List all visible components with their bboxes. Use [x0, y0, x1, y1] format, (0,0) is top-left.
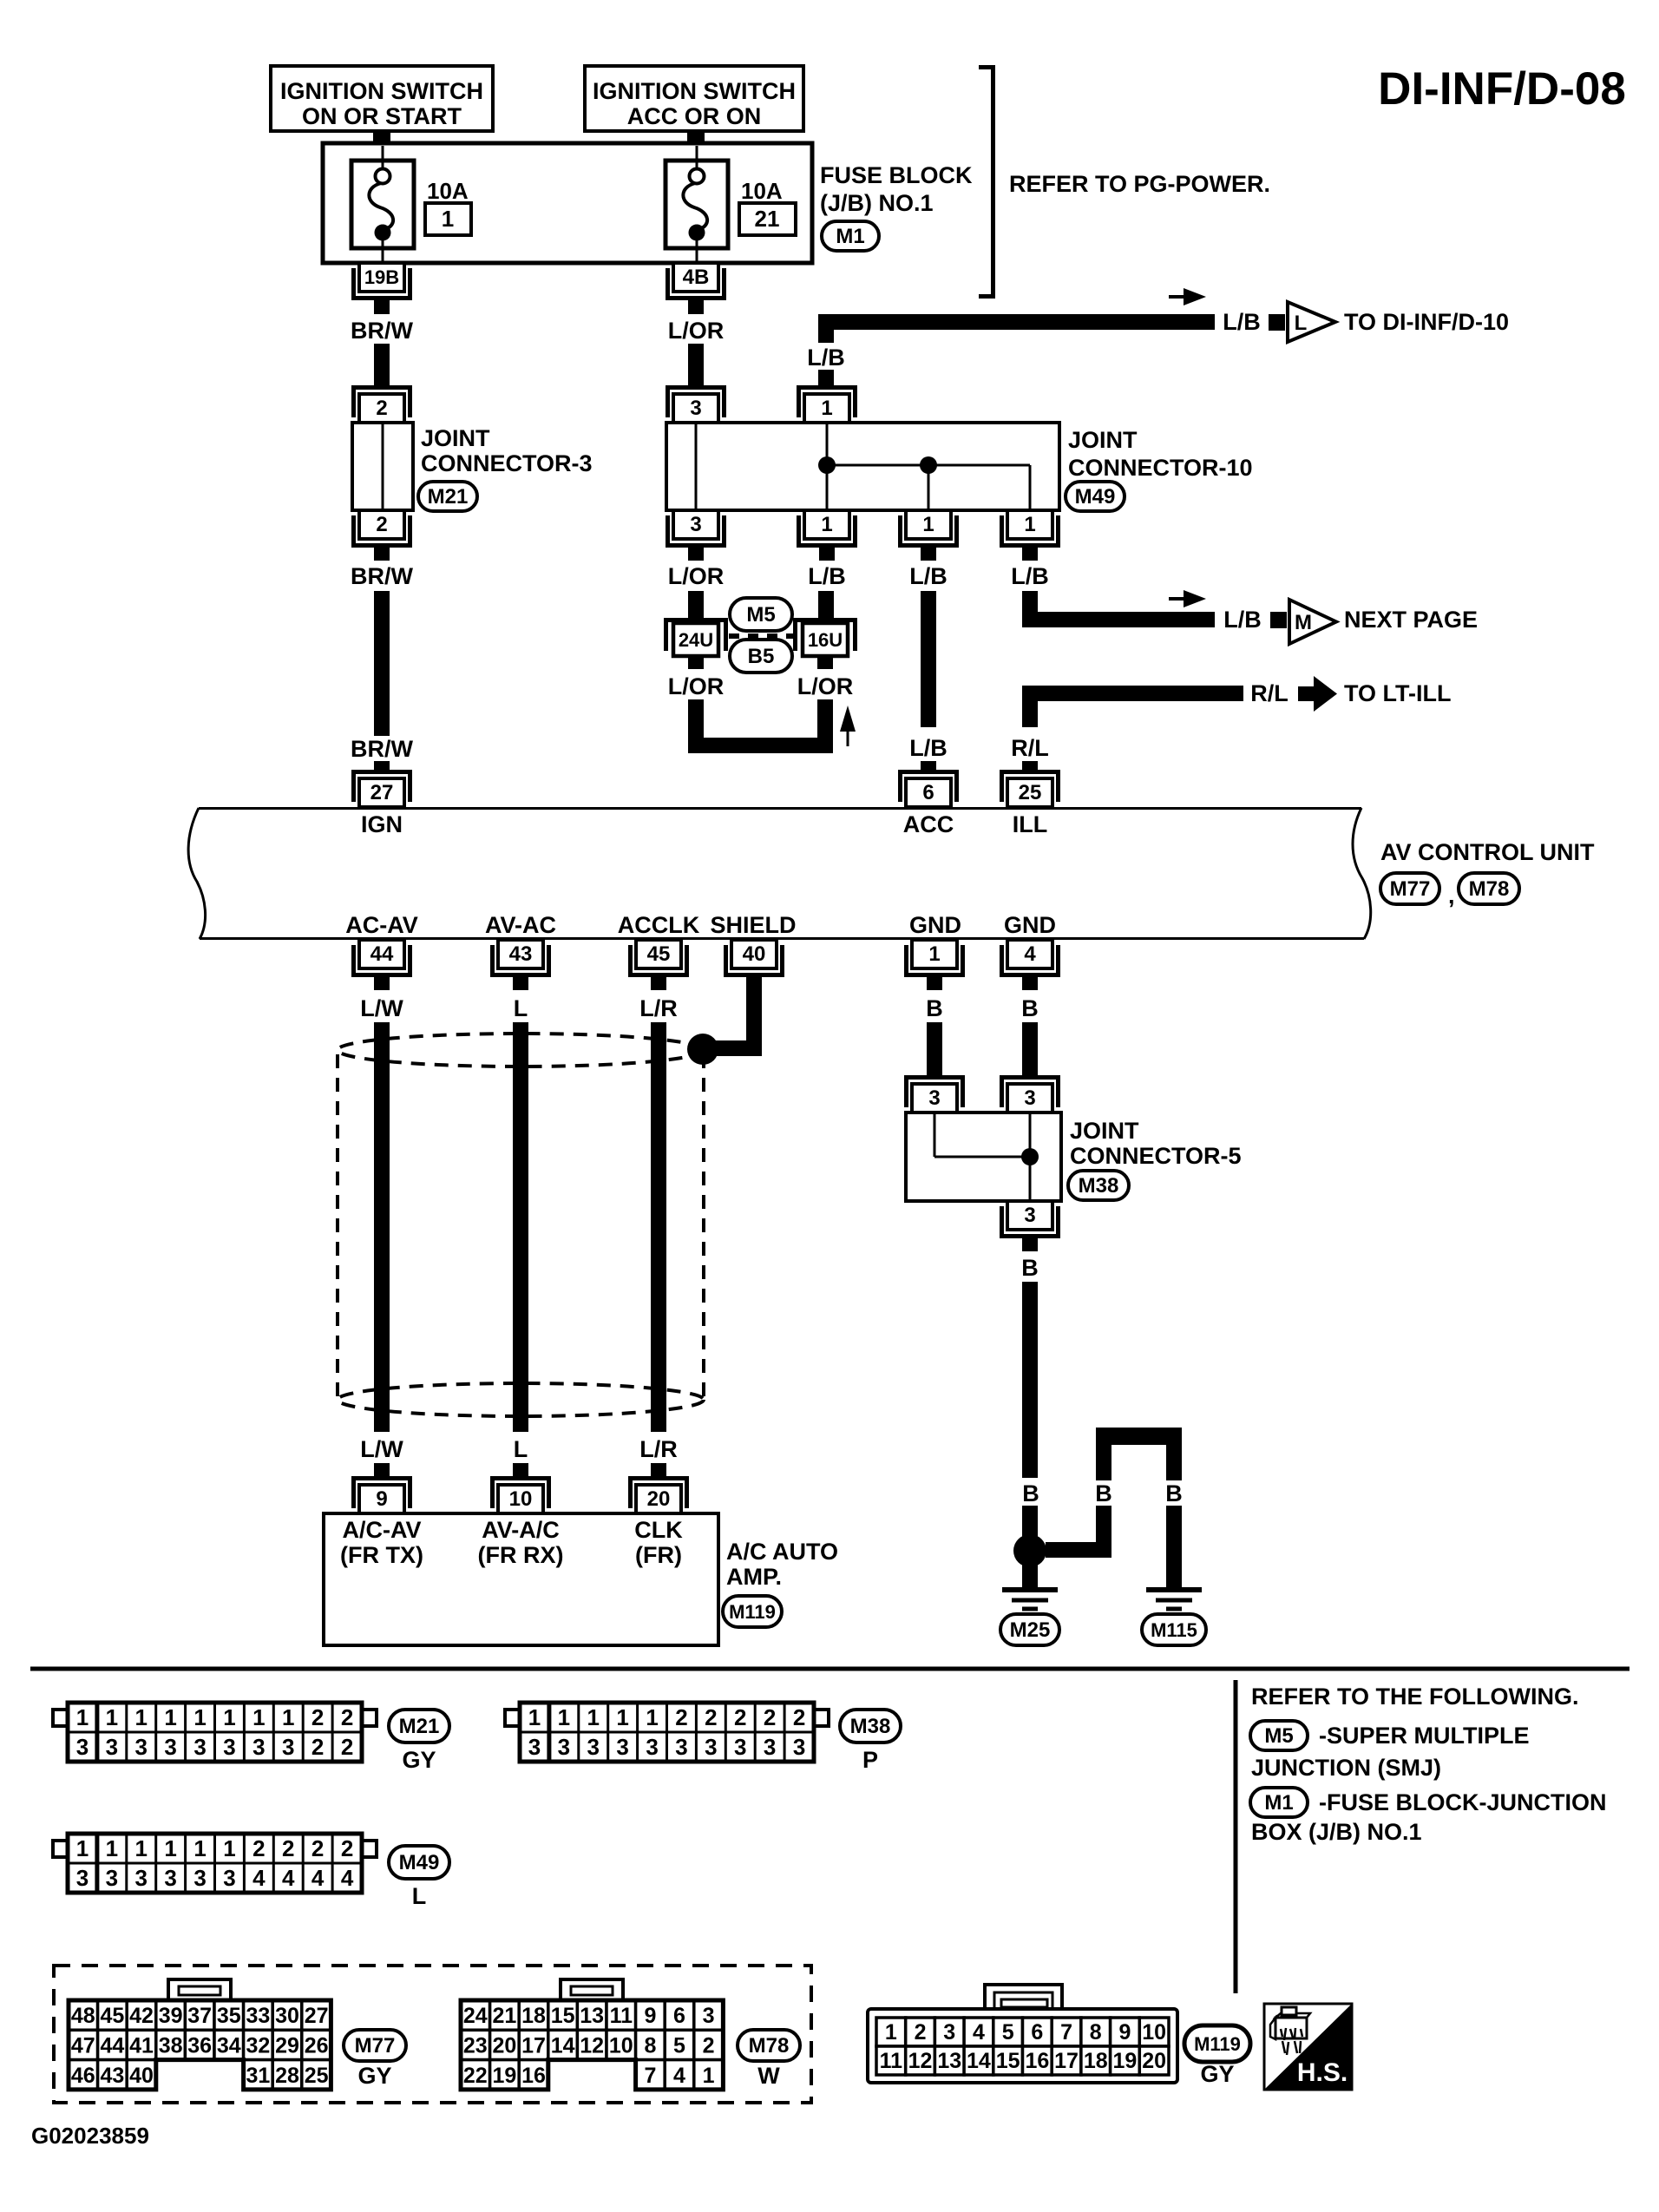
- connector pin 1 (AV unit): [907, 940, 963, 975]
- svg-text:10: 10: [1142, 2020, 1166, 2045]
- svg-text:B: B: [1022, 1480, 1039, 1506]
- off-page triangle L: [1288, 302, 1335, 342]
- wire L/R: [651, 1022, 666, 1432]
- svg-text:42: 42: [129, 2004, 154, 2028]
- off-page connector square: [1269, 314, 1285, 331]
- connector pin 43 (AV unit): [493, 940, 549, 975]
- connector ref M77 oval: [344, 2030, 406, 2061]
- connector pin 3 (joint connector-5 top): [907, 1078, 963, 1113]
- wire L/B from joint connector-10 to DI-INF/D-10: [818, 314, 1215, 330]
- wire stub above pin 6: [921, 761, 936, 772]
- joint connector-10 body M49: [666, 423, 1059, 510]
- svg-text:1: 1: [646, 1704, 658, 1730]
- svg-text:L: L: [514, 1436, 528, 1462]
- dashed box around M77/M78: [54, 1966, 811, 2103]
- wire stub above JC-10 pin 1: [818, 370, 834, 388]
- svg-text:L/B: L/B: [808, 563, 846, 589]
- fuse block (J/B) no.1 box M1: [323, 143, 812, 263]
- wire stub below 4B: [688, 298, 704, 314]
- SMJ dashed link M5/B5: [729, 633, 798, 639]
- wire stubs below AV unit: [374, 975, 390, 990]
- connector ref M78 oval: [1459, 873, 1519, 904]
- svg-text:18: 18: [521, 2004, 546, 2028]
- svg-text:1: 1: [135, 1835, 148, 1861]
- up arrow: [840, 706, 856, 746]
- connector table M78: [461, 1979, 723, 2090]
- svg-text:3: 3: [734, 1734, 746, 1760]
- connector pin 9 (A/C amp): [354, 1479, 410, 1514]
- svg-text:P: P: [862, 1747, 878, 1773]
- svg-text:4: 4: [311, 1865, 325, 1891]
- svg-text:4: 4: [1024, 942, 1036, 966]
- svg-text:IGNITION SWITCH: IGNITION SWITCH: [593, 78, 796, 104]
- svg-text:24: 24: [463, 2004, 488, 2028]
- svg-text:(FR TX): (FR TX): [340, 1542, 423, 1568]
- svg-text:AC-AV: AC-AV: [345, 912, 418, 938]
- svg-text:2: 2: [705, 1704, 717, 1730]
- svg-text:22: 22: [463, 2064, 488, 2088]
- fuse 1 rating 10A and number 1: [425, 178, 471, 235]
- connector pin 1 (joint connector-10 bottom): [799, 510, 856, 546]
- svg-text:G02023859: G02023859: [31, 2123, 149, 2149]
- wire: ignition ACC to fuse block: [687, 131, 705, 145]
- svg-text:30: 30: [275, 2004, 299, 2028]
- svg-text:35: 35: [217, 2004, 241, 2028]
- svg-text:5: 5: [673, 2033, 685, 2058]
- svg-text:L/B: L/B: [807, 345, 845, 371]
- svg-text:12: 12: [908, 2049, 933, 2073]
- svg-text:36: 36: [187, 2033, 212, 2058]
- svg-text:20: 20: [647, 1487, 671, 1511]
- svg-text:2: 2: [341, 1704, 353, 1730]
- connector pin 1 (joint connector-10 top): [799, 388, 856, 423]
- label FUSE BLOCK (J/B) NO.1: [820, 162, 973, 216]
- connector ref M49 oval: [1066, 482, 1125, 511]
- junction dot in JC-10: [818, 456, 836, 474]
- svg-text:19: 19: [492, 2064, 516, 2088]
- svg-text:9: 9: [1118, 2020, 1131, 2045]
- svg-text:20: 20: [492, 2033, 516, 2058]
- svg-text:3: 3: [793, 1734, 805, 1760]
- svg-text:3: 3: [616, 1734, 628, 1760]
- svg-text:25: 25: [305, 2064, 329, 2088]
- svg-text:GY: GY: [1200, 2061, 1234, 2087]
- svg-text:ILL: ILL: [1013, 811, 1048, 837]
- svg-text:(FR RX): (FR RX): [478, 1542, 564, 1568]
- svg-text:GY: GY: [402, 1747, 436, 1773]
- connector ref M1 oval: [1250, 1788, 1308, 1817]
- svg-text:3: 3: [587, 1734, 600, 1760]
- wire to ground M115: [1166, 1506, 1182, 1589]
- ground ref M25 oval: [1000, 1614, 1059, 1645]
- svg-text:17: 17: [1054, 2049, 1079, 2073]
- svg-text:M21: M21: [428, 485, 469, 509]
- svg-text:15: 15: [551, 2004, 575, 2028]
- svg-text:16: 16: [521, 2064, 546, 2088]
- connector ref M1 oval: [822, 221, 879, 251]
- svg-text:GY: GY: [357, 2063, 391, 2089]
- svg-text:1: 1: [164, 1704, 176, 1730]
- svg-text:M5: M5: [1264, 1724, 1293, 1748]
- SMJ terminal 16U (SMJ B5 side): [796, 620, 856, 657]
- svg-text:37: 37: [187, 2004, 212, 2028]
- connector ref M78 oval: [738, 2030, 800, 2061]
- wire BR/W long to AV unit: [374, 591, 390, 736]
- svg-text:A/C AUTO: A/C AUTO: [726, 1539, 838, 1565]
- svg-text:1: 1: [1024, 513, 1035, 536]
- flow arrow right: [1169, 288, 1206, 305]
- svg-text:B5: B5: [748, 645, 775, 668]
- svg-text:2: 2: [341, 1734, 353, 1760]
- H.S. logo: [1264, 2004, 1352, 2090]
- svg-text:L: L: [1295, 312, 1308, 335]
- fuse fuse 21 10A: [666, 146, 728, 261]
- connector table M77: [69, 1979, 331, 2090]
- svg-text:18: 18: [1084, 2049, 1108, 2073]
- svg-text:R/L: R/L: [1011, 735, 1049, 761]
- svg-text:,: ,: [1448, 883, 1455, 909]
- wire stub above pin 27: [374, 761, 390, 772]
- svg-text:1: 1: [193, 1704, 206, 1730]
- svg-text:3: 3: [690, 397, 701, 420]
- connector ref B5 oval: [730, 640, 792, 673]
- svg-text:38: 38: [159, 2033, 183, 2058]
- connector ref M38 oval: [1068, 1171, 1129, 1200]
- svg-text:26: 26: [305, 2033, 329, 2058]
- svg-text:2: 2: [341, 1835, 353, 1861]
- svg-text:M21: M21: [399, 1715, 440, 1738]
- svg-text:JUNCTION (SMJ): JUNCTION (SMJ): [1251, 1755, 1441, 1781]
- connector ref M21 oval: [418, 482, 477, 511]
- connector table M49: [53, 1834, 377, 1893]
- connector pin 40 (AV unit): [726, 940, 783, 975]
- AV control unit box M77/M78: [188, 808, 1371, 939]
- svg-text:11: 11: [880, 2049, 903, 2073]
- svg-text:43: 43: [509, 942, 533, 966]
- svg-text:L/B: L/B: [1223, 607, 1262, 633]
- off-page connector square: [1270, 612, 1287, 628]
- svg-text:1: 1: [587, 1704, 600, 1730]
- svg-text:M119: M119: [729, 1601, 776, 1623]
- svg-text:1: 1: [193, 1835, 206, 1861]
- svg-text:1: 1: [76, 1835, 89, 1861]
- svg-text:3: 3: [1024, 1086, 1035, 1110]
- svg-text:3: 3: [928, 1086, 940, 1110]
- svg-text:M: M: [1295, 611, 1312, 634]
- svg-text:3: 3: [106, 1865, 118, 1891]
- connector table M38: [505, 1703, 829, 1762]
- wire U-loop 24U to 16U: [688, 699, 704, 753]
- svg-text:3: 3: [193, 1734, 206, 1760]
- svg-text:46: 46: [71, 2064, 95, 2088]
- wire L: [513, 1022, 528, 1432]
- svg-text:19: 19: [1113, 2049, 1138, 2073]
- connector pin 2 (joint connector-3 top): [354, 388, 410, 423]
- svg-text:1: 1: [106, 1835, 118, 1861]
- svg-text:JOINT: JOINT: [1068, 427, 1138, 453]
- svg-text:2: 2: [311, 1704, 324, 1730]
- svg-text:L/W: L/W: [360, 1436, 403, 1462]
- svg-text:(J/B) NO.1: (J/B) NO.1: [820, 190, 934, 216]
- junction dot in JC-10: [920, 456, 937, 474]
- svg-text:13: 13: [937, 2049, 961, 2073]
- svg-text:TO LT-ILL: TO LT-ILL: [1344, 680, 1451, 706]
- svg-text:2: 2: [764, 1704, 776, 1730]
- ground loop wire: [1096, 1428, 1182, 1445]
- connector pin 10 (A/C amp): [493, 1479, 549, 1514]
- svg-text:1: 1: [885, 2020, 897, 2045]
- wire R/L to LT-ILL: [1022, 686, 1243, 701]
- svg-text:4: 4: [673, 2064, 685, 2088]
- svg-text:IGNITION SWITCH: IGNITION SWITCH: [280, 78, 483, 104]
- svg-text:3: 3: [943, 2020, 955, 2045]
- flow arrow right: [1169, 590, 1206, 607]
- svg-text:29: 29: [275, 2033, 299, 2058]
- wire stubs below JC-10: [688, 545, 704, 561]
- svg-text:M49: M49: [1075, 485, 1116, 509]
- svg-text:19B: 19B: [364, 266, 399, 288]
- svg-text:JOINT: JOINT: [421, 425, 490, 451]
- pin name AV-A/C (FR RX): [478, 1517, 564, 1568]
- svg-text:16: 16: [1025, 2049, 1049, 2073]
- svg-text:2: 2: [311, 1734, 324, 1760]
- svg-text:10: 10: [509, 1487, 533, 1511]
- wire L/W: [374, 1022, 390, 1432]
- svg-text:M78: M78: [1469, 877, 1510, 901]
- svg-text:3: 3: [703, 2004, 715, 2028]
- svg-text:17: 17: [521, 2033, 546, 2058]
- svg-text:3: 3: [558, 1734, 570, 1760]
- wire stub below 24U: [688, 657, 704, 669]
- wire L/B to next page: [1022, 591, 1038, 627]
- connector pin 6 (AV unit ACC): [901, 772, 957, 808]
- wire BR/W to joint connector-3: [374, 344, 390, 388]
- svg-text:AV-A/C: AV-A/C: [482, 1517, 560, 1543]
- svg-text:3: 3: [164, 1734, 176, 1760]
- svg-text:3: 3: [223, 1734, 235, 1760]
- svg-text:20: 20: [1142, 2049, 1166, 2073]
- wire stub below JC-5: [1022, 1236, 1038, 1251]
- svg-text:3: 3: [164, 1865, 176, 1891]
- ground junction dot: [1013, 1534, 1046, 1567]
- svg-text:32: 32: [246, 2033, 270, 2058]
- svg-text:6: 6: [673, 2004, 685, 2028]
- connector ref M5 oval: [1250, 1721, 1308, 1750]
- solid arrow right: [1298, 676, 1337, 712]
- connector pin 3 (joint connector-5 top): [1002, 1078, 1059, 1113]
- svg-text:M25: M25: [1010, 1618, 1051, 1642]
- svg-text:3: 3: [135, 1734, 148, 1760]
- svg-text:M1: M1: [836, 225, 864, 248]
- svg-text:9: 9: [644, 2004, 656, 2028]
- svg-text:1: 1: [821, 513, 832, 536]
- svg-text:1: 1: [442, 206, 454, 232]
- svg-text:23: 23: [463, 2033, 488, 2058]
- shield cylinder dashed: [338, 1034, 704, 1416]
- connector pin 2 (joint connector-3 bottom): [354, 510, 410, 546]
- divider line: [1234, 1680, 1238, 1993]
- svg-text:24U: 24U: [679, 629, 713, 651]
- fuse 21 rating 10A and number 21: [739, 178, 796, 235]
- svg-text:2: 2: [793, 1704, 805, 1730]
- svg-text:L/B: L/B: [909, 563, 948, 589]
- svg-text:GND: GND: [909, 912, 961, 938]
- svg-text:3: 3: [528, 1734, 541, 1760]
- svg-text:4: 4: [341, 1865, 354, 1891]
- svg-text:39: 39: [159, 2004, 183, 2028]
- svg-text:3: 3: [1024, 1204, 1035, 1227]
- svg-text:31: 31: [246, 2064, 270, 2088]
- power source box: IGNITION SWITCH ON OR START: [271, 66, 493, 131]
- svg-text:27: 27: [305, 2004, 329, 2028]
- ground ref M115 oval: [1142, 1614, 1206, 1645]
- svg-text:IGN: IGN: [361, 811, 403, 837]
- svg-text:13: 13: [580, 2004, 604, 2028]
- svg-text:L/B: L/B: [1223, 309, 1261, 335]
- pin name CLK (FR): [634, 1517, 683, 1568]
- svg-text:B: B: [926, 995, 943, 1021]
- svg-text:1: 1: [223, 1704, 235, 1730]
- svg-text:1: 1: [558, 1704, 570, 1730]
- wire B from pin 1: [927, 1022, 942, 1078]
- svg-text:M77: M77: [355, 2034, 396, 2058]
- svg-text:AV-AC: AV-AC: [485, 912, 556, 938]
- svg-text:AMP.: AMP.: [726, 1564, 782, 1590]
- svg-text:M78: M78: [749, 2034, 790, 2058]
- svg-text:ACC: ACC: [903, 811, 954, 837]
- svg-text:M1: M1: [1264, 1791, 1293, 1815]
- brace bracket for fuse block: [979, 68, 993, 297]
- svg-text:1: 1: [106, 1704, 118, 1730]
- connector ref M21 oval: [389, 1710, 449, 1743]
- svg-text:3: 3: [76, 1734, 89, 1760]
- wire L/OR into 24U: [688, 591, 704, 619]
- connector pin 3 (joint connector-10 top): [668, 388, 725, 423]
- joint connector-3 body M21: [352, 423, 413, 510]
- svg-text:2: 2: [915, 2020, 927, 2045]
- label A/C AUTO AMP.: [726, 1539, 838, 1590]
- svg-text:1: 1: [821, 397, 832, 420]
- svg-text:21: 21: [755, 206, 780, 232]
- svg-text:41: 41: [129, 2033, 154, 2058]
- svg-text:11: 11: [610, 2004, 633, 2028]
- svg-text:4: 4: [282, 1865, 295, 1891]
- svg-text:10A: 10A: [741, 178, 783, 204]
- svg-text:H.S.: H.S.: [1297, 2058, 1348, 2087]
- svg-text:2: 2: [703, 2033, 715, 2058]
- svg-text:M38: M38: [1079, 1174, 1119, 1198]
- wire B long: [1022, 1282, 1038, 1478]
- svg-text:M5: M5: [746, 603, 775, 627]
- svg-text:M115: M115: [1151, 1619, 1197, 1641]
- svg-text:L/B: L/B: [1011, 563, 1049, 589]
- fuse fuse 1 10A: [351, 146, 414, 261]
- svg-text:1: 1: [922, 513, 934, 536]
- wire B from pin 4: [1022, 1022, 1038, 1078]
- svg-text:4B: 4B: [683, 266, 710, 289]
- svg-text:4: 4: [973, 2020, 985, 2045]
- connector ref M38 oval: [840, 1710, 901, 1743]
- A/C auto amp box M119: [324, 1513, 718, 1645]
- svg-text:B: B: [1095, 1480, 1112, 1506]
- connector ref M119 oval: [1184, 2025, 1250, 2062]
- connector pin 20 (A/C amp): [631, 1479, 687, 1514]
- svg-text:L/B: L/B: [909, 735, 948, 761]
- svg-text:R/L: R/L: [1250, 680, 1289, 706]
- svg-text:3: 3: [223, 1865, 235, 1891]
- svg-text:1: 1: [703, 2064, 715, 2088]
- svg-text:4: 4: [252, 1865, 266, 1891]
- wire stub below 19B: [374, 298, 390, 314]
- svg-text:5: 5: [1002, 2020, 1014, 2045]
- svg-text:M38: M38: [850, 1715, 891, 1738]
- svg-text:2: 2: [734, 1704, 746, 1730]
- svg-text:27: 27: [370, 781, 394, 804]
- svg-text:10: 10: [609, 2033, 633, 2058]
- off-page triangle M: [1289, 600, 1336, 644]
- svg-text:AV CONTROL UNIT: AV CONTROL UNIT: [1380, 839, 1595, 865]
- svg-text:7: 7: [644, 2064, 656, 2088]
- connector pin 19B (fuse block): [354, 263, 410, 299]
- connector pin 3 (joint connector-5 bottom): [1002, 1201, 1059, 1237]
- joint connector-5 body M38: [906, 1113, 1061, 1201]
- label JOINT CONNECTOR-10: [1068, 427, 1253, 481]
- svg-text:2: 2: [252, 1835, 265, 1861]
- svg-text:45: 45: [647, 942, 671, 966]
- svg-text:7: 7: [1060, 2020, 1072, 2045]
- connector ref M119 oval: [723, 1596, 782, 1627]
- svg-text:25: 25: [1019, 781, 1042, 804]
- wire L/B into 16U: [818, 591, 834, 619]
- svg-text:DI-INF/D-08: DI-INF/D-08: [1378, 63, 1626, 115]
- SMJ terminal 24U (SMJ M5 side): [666, 620, 726, 657]
- svg-text:M77: M77: [1390, 877, 1431, 901]
- svg-text:B: B: [1021, 995, 1039, 1021]
- svg-text:TO DI-INF/D-10: TO DI-INF/D-10: [1344, 309, 1509, 335]
- svg-text:2: 2: [376, 397, 387, 420]
- ground symbol M25: [1002, 1590, 1058, 1609]
- svg-text:JOINT: JOINT: [1070, 1118, 1139, 1144]
- wire L/B to ACC pin 6: [921, 591, 936, 727]
- svg-text:3: 3: [135, 1865, 148, 1891]
- svg-text:6: 6: [922, 781, 934, 804]
- svg-text:L/R: L/R: [639, 1436, 678, 1462]
- svg-text:SHIELD: SHIELD: [710, 912, 796, 938]
- wire segment to junction dot: [1022, 1506, 1038, 1540]
- connector pin 1 (joint connector-10 bottom): [1002, 510, 1059, 546]
- svg-text:14: 14: [967, 2049, 991, 2073]
- svg-text:A/C-AV: A/C-AV: [343, 1517, 422, 1543]
- svg-text:1: 1: [282, 1704, 294, 1730]
- svg-text:CONNECTOR-3: CONNECTOR-3: [421, 450, 593, 476]
- svg-text:CONNECTOR-5: CONNECTOR-5: [1070, 1143, 1242, 1169]
- svg-text:FUSE BLOCK: FUSE BLOCK: [820, 162, 973, 188]
- svg-text:40: 40: [743, 942, 766, 966]
- svg-text:1: 1: [135, 1704, 148, 1730]
- label JOINT CONNECTOR-3: [421, 425, 593, 476]
- svg-text:1: 1: [928, 942, 940, 966]
- svg-text:3: 3: [764, 1734, 776, 1760]
- connector pin 27 (AV unit IGN): [354, 772, 410, 808]
- connector pin 3 (joint connector-10 bottom): [668, 510, 725, 546]
- svg-text:L/OR: L/OR: [668, 563, 725, 589]
- svg-text:21: 21: [492, 2004, 516, 2028]
- junction dot in JC-5: [1021, 1148, 1039, 1165]
- svg-text:40: 40: [129, 2064, 154, 2088]
- svg-text:BOX (J/B) NO.1: BOX (J/B) NO.1: [1251, 1819, 1422, 1845]
- svg-text:L/W: L/W: [360, 995, 403, 1021]
- svg-text:3: 3: [252, 1734, 265, 1760]
